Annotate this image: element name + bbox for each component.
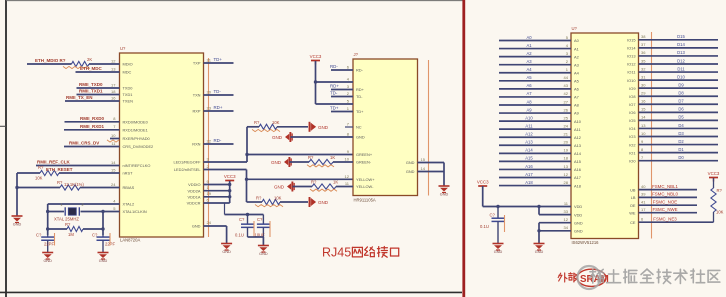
wire A4 (499, 72, 571, 74)
svg-text:RXN: RXN (192, 142, 200, 147)
ground (221, 244, 232, 255)
wire vertical orange line beside J1 (428, 60, 430, 196)
svg-text:CE: CE (630, 220, 636, 225)
wire ETH_RESET net (17, 172, 40, 174)
svg-text:FSMC_NBL0: FSMC_NBL0 (652, 192, 678, 197)
svg-text:15: 15 (641, 107, 646, 112)
svg-text:GND: GND (356, 135, 365, 140)
wire FSMC_NBL0 (639, 196, 698, 198)
wire VDD rail (204, 196, 230, 198)
wire XTAL1 (103, 211, 120, 213)
svg-text:RBIAS: RBIAS (123, 185, 135, 190)
svg-text:RXD0/MODE0: RXD0/MODE0 (123, 120, 149, 125)
svg-text:D4: D4 (678, 123, 684, 128)
svg-text:TD-: TD- (330, 91, 338, 96)
svg-text:RJ45: RJ45 (322, 246, 351, 260)
ground (439, 186, 450, 197)
svg-text:YELLOW-: YELLOW- (356, 184, 374, 189)
wire crystal right vertical (102, 212, 104, 236)
wire D5 (639, 119, 719, 121)
wire A8 (499, 104, 571, 106)
svg-text:TXN: TXN (193, 93, 201, 98)
wire RMII_CRS_DV (64, 146, 120, 148)
svg-text:31: 31 (641, 74, 646, 79)
svg-text:17: 17 (641, 207, 646, 212)
svg-text:D13: D13 (677, 50, 685, 55)
ground (98, 253, 109, 264)
svg-text:1K: 1K (330, 155, 335, 160)
wire A16 (499, 168, 571, 170)
resistor R8 1M (48, 228, 67, 230)
svg-text:1: 1 (60, 203, 62, 207)
svg-text:20: 20 (207, 89, 212, 94)
svg-text:NC: NC (356, 125, 362, 130)
svg-text:D0: D0 (678, 155, 684, 160)
wire FSMC_NOE (639, 204, 698, 206)
svg-text:A18: A18 (525, 180, 533, 185)
svg-text:TD-: TD- (214, 89, 222, 94)
svg-text:GND: GND (43, 259, 52, 263)
wire D0 (639, 160, 719, 162)
svg-text:RXD1/MODE1: RXD1/MODE1 (123, 128, 148, 133)
svg-text:34: 34 (564, 225, 569, 230)
svg-text:A11: A11 (574, 127, 581, 132)
svg-text:GND: GND (318, 125, 329, 130)
svg-text:A18: A18 (574, 183, 581, 188)
svg-text:12: 12 (564, 217, 569, 222)
wire A2 (499, 56, 571, 58)
svg-text:A7: A7 (526, 91, 532, 96)
svg-text:A8: A8 (526, 99, 532, 104)
svg-text:10K: 10K (35, 176, 43, 181)
svg-text:TD+: TD+ (214, 57, 223, 62)
svg-text:VDD1A: VDD1A (188, 195, 201, 200)
wire RXER stub (110, 138, 120, 140)
wire A10 (499, 120, 571, 122)
svg-text:A4: A4 (526, 67, 532, 72)
svg-text:A14: A14 (574, 151, 582, 156)
svg-text:ETH_MDIO R?: ETH_MDIO R? (35, 58, 66, 63)
svg-text:A5: A5 (574, 79, 579, 84)
svg-text:28: 28 (564, 180, 569, 185)
wire ETH_MDC net (76, 71, 120, 73)
power port GND (309, 197, 311, 207)
wire ETH_MDIO net (27, 63, 72, 65)
svg-text:IO8: IO8 (629, 94, 635, 99)
svg-text:IO6: IO6 (629, 110, 635, 115)
svg-text:RMII_TXD0: RMII_TXD0 (79, 82, 103, 87)
svg-text:42: 42 (564, 91, 569, 96)
wire caps to ground (248, 236, 264, 238)
svg-text:RXER/PHYAD0: RXER/PHYAD0 (123, 136, 151, 141)
svg-text:GND: GND (440, 193, 449, 197)
wire D14 (639, 47, 719, 49)
svg-text:VDD: VDD (574, 212, 582, 217)
svg-text:D11: D11 (677, 66, 685, 71)
svg-text:VDD2A: VDD2A (188, 188, 201, 193)
svg-text:14: 14 (421, 166, 426, 171)
svg-text:A13: A13 (574, 143, 581, 148)
wire D2 (639, 144, 719, 146)
wire RMII_RXD0 (65, 121, 120, 123)
J1 pin 7 NC stub (345, 126, 353, 128)
svg-text:XTAL1/CLKIN: XTAL1/CLKIN (123, 209, 147, 214)
svg-text:13: 13 (111, 66, 116, 71)
svg-text:22: 22 (207, 138, 212, 143)
svg-text:10: 10 (345, 157, 350, 162)
wire vertical orange line beside U1 (208, 58, 210, 237)
wire VDD rail (204, 202, 230, 204)
svg-text:LED1/REGOFF: LED1/REGOFF (173, 160, 201, 165)
svg-text:GND: GND (406, 169, 415, 174)
svg-text:19: 19 (564, 148, 569, 153)
svg-text:GND: GND (259, 252, 268, 256)
wire RMII_RXD1 (64, 129, 120, 131)
svg-text:GND: GND (271, 160, 282, 165)
resistor R7 2K (72, 61, 90, 66)
ground (493, 244, 504, 255)
wire RMII_TX_EN (65, 100, 120, 102)
svg-text:36: 36 (641, 50, 646, 55)
svg-text:nRST: nRST (123, 171, 134, 176)
svg-text:A9: A9 (574, 111, 579, 116)
svg-text:14: 14 (641, 115, 646, 120)
svg-text:IO10: IO10 (627, 78, 636, 83)
svg-text:43: 43 (564, 83, 569, 88)
svg-text:LED2/nINTSEL: LED2/nINTSEL (174, 167, 201, 172)
svg-text:32: 32 (641, 66, 646, 71)
svg-text:15: 15 (421, 157, 426, 162)
svg-text:TXEN: TXEN (123, 99, 134, 104)
svg-text:FSMC_NBL1: FSMC_NBL1 (652, 184, 678, 189)
svg-text:GREEN+: GREEN+ (356, 152, 373, 157)
wire A17 (499, 177, 571, 179)
wire A15 (499, 160, 571, 162)
resistor R6 12.1K 1% (17, 187, 60, 189)
svg-text:LB: LB (631, 195, 636, 200)
svg-text:35: 35 (641, 58, 646, 63)
svg-text:39: 39 (641, 192, 646, 197)
svg-text:10K: 10K (272, 120, 280, 125)
svg-text:TXD1: TXD1 (123, 92, 133, 97)
svg-text:10: 10 (641, 131, 646, 136)
svg-text:D6: D6 (678, 107, 684, 112)
wire A3 (499, 64, 571, 66)
svg-text:FSMC_NOE: FSMC_NOE (653, 200, 677, 205)
svg-text:RMII_TXD1: RMII_TXD1 (79, 89, 103, 94)
svg-text:A1: A1 (526, 43, 532, 48)
svg-text:33: 33 (564, 209, 569, 214)
svg-text:22PF: 22PF (44, 242, 54, 247)
svg-text:A16: A16 (525, 164, 533, 169)
resistor R5 10K (40, 170, 59, 175)
svg-text:D8: D8 (678, 91, 684, 96)
svg-text:CRS_DV/MODE2: CRS_DV/MODE2 (123, 144, 154, 149)
wire A18 (499, 185, 571, 187)
svg-text:29: 29 (641, 91, 646, 96)
wire D7 (639, 103, 719, 105)
svg-text:A5: A5 (526, 75, 532, 80)
svg-text:37: 37 (641, 42, 646, 47)
svg-text:A2: A2 (526, 51, 532, 56)
svg-text:IO4: IO4 (629, 126, 636, 131)
svg-text:IO13: IO13 (627, 54, 635, 59)
svg-text:A0: A0 (574, 38, 580, 43)
svg-text:J?: J? (354, 52, 359, 57)
svg-text:15: 15 (111, 167, 116, 172)
memory U2 SRAM IS62WV51216 body (571, 33, 639, 239)
svg-text:XTAL2: XTAL2 (123, 202, 135, 207)
svg-text:R?: R? (256, 195, 262, 200)
svg-text:A10: A10 (574, 119, 582, 124)
svg-text:A8: A8 (574, 103, 579, 108)
svg-text:TD+: TD+ (356, 109, 364, 114)
crystal X1 25MHz (48, 211, 64, 213)
svg-text:RMII_RXD1: RMII_RXD1 (80, 124, 105, 129)
svg-text:24: 24 (207, 220, 212, 225)
svg-text:A14: A14 (525, 148, 533, 153)
capacitor C10 0.1uF (247, 215, 249, 225)
svg-text:14: 14 (111, 160, 116, 165)
svg-text:26: 26 (564, 107, 569, 112)
svg-text:RD+: RD+ (214, 105, 223, 110)
wire A12 (499, 136, 571, 138)
svg-text:GREEN-: GREEN- (356, 160, 372, 165)
svg-text:GND: GND (274, 185, 285, 190)
svg-text:13: 13 (641, 123, 646, 128)
svg-text:TXP: TXP (193, 61, 201, 66)
ground (42, 253, 53, 264)
svg-text:A10: A10 (525, 115, 533, 120)
svg-text:RD+: RD+ (356, 87, 365, 92)
svg-text:0.1U: 0.1U (235, 233, 244, 238)
svg-text:nINT/REFCLKO: nINT/REFCLKO (123, 163, 151, 168)
svg-text:2K: 2K (87, 57, 92, 62)
wire D9 (639, 87, 719, 89)
svg-text:D10: D10 (677, 74, 685, 79)
capacitor C11 10uF (262, 215, 264, 225)
svg-text:D9: D9 (678, 82, 684, 87)
svg-text:RD-: RD- (356, 68, 364, 73)
svg-text:GND: GND (99, 259, 108, 263)
svg-text:RD-: RD- (214, 138, 222, 143)
wire GND pins (539, 222, 571, 224)
svg-text:IO12: IO12 (627, 62, 635, 67)
wire pin4 (316, 81, 354, 83)
svg-text:XTAL 25MHZ: XTAL 25MHZ (54, 217, 79, 222)
wire D11 (639, 71, 719, 73)
svg-text:18: 18 (564, 156, 569, 161)
svg-text:C?: C? (257, 217, 263, 222)
svg-text:10K: 10K (274, 195, 282, 200)
svg-text:TD+: TD+ (330, 106, 339, 111)
power port GND (309, 122, 311, 132)
wire D15 (639, 39, 719, 41)
svg-text:IO3: IO3 (629, 134, 635, 139)
svg-text:VCC3: VCC3 (310, 54, 322, 59)
svg-text:R?: R? (65, 222, 71, 227)
svg-text:GND: GND (574, 220, 583, 225)
wire VDD rail (204, 184, 230, 186)
svg-text:R?: R? (254, 120, 260, 125)
svg-text:A17: A17 (574, 175, 581, 180)
svg-text:ETH_MDC: ETH_MDC (80, 66, 103, 71)
wire D8 (639, 95, 719, 97)
svg-text:A2: A2 (574, 54, 579, 59)
wire A5 (499, 80, 571, 82)
svg-text:16: 16 (111, 95, 116, 100)
svg-text:12: 12 (564, 172, 569, 177)
svg-text:TD-: TD- (356, 94, 363, 99)
wire A7 (499, 96, 571, 98)
svg-text:A1: A1 (574, 46, 579, 51)
svg-text:1M: 1M (68, 232, 74, 237)
resistor R11 10K pullup yellow (262, 199, 280, 204)
svg-text:D1: D1 (678, 147, 684, 152)
svg-text:ETH_RESET: ETH_RESET (46, 167, 73, 172)
svg-text:GND: GND (406, 160, 415, 165)
svg-text:RXP: RXP (193, 109, 201, 114)
wire A14 (499, 152, 571, 154)
wire vertical orange line inside U2 right (651, 32, 653, 239)
wire LED1 to GREEN+ (204, 161, 248, 163)
svg-text:OE: OE (630, 203, 636, 208)
svg-text:RMII_REF_CLK: RMII_REF_CLK (37, 160, 71, 165)
wire VDD pin33 (539, 214, 571, 216)
wire A6 (499, 88, 571, 90)
svg-text:20: 20 (564, 140, 569, 145)
wire D6 (639, 111, 719, 113)
svg-text:IO15: IO15 (627, 38, 635, 43)
svg-text:A0: A0 (526, 35, 532, 40)
svg-text:MDIO: MDIO (123, 62, 133, 67)
capacitor C9 22pF (102, 235, 104, 237)
node RBIAS junction (15, 186, 18, 189)
svg-text:UB: UB (630, 187, 636, 192)
svg-text:12: 12 (345, 174, 350, 179)
svg-text:HR911105A: HR911105A (354, 198, 376, 203)
svg-text:U?: U? (120, 46, 126, 51)
svg-text:R?: R? (311, 180, 317, 185)
svg-text:VCC3: VCC3 (708, 171, 720, 176)
wire D10 (639, 79, 719, 81)
svg-text:GND: GND (574, 229, 583, 234)
svg-text:GND: GND (272, 135, 283, 140)
svg-text:24: 24 (564, 123, 569, 128)
sheet border left section (5, 0, 7, 297)
svg-text:RD+: RD+ (330, 84, 339, 89)
svg-text:27: 27 (564, 99, 569, 104)
red section divider (462, 0, 465, 297)
ground (258, 246, 269, 257)
wire decoupling rail (224, 203, 226, 215)
wire D13 (639, 55, 719, 57)
svg-text:VCC3: VCC3 (477, 180, 489, 185)
svg-text:A15: A15 (525, 156, 533, 161)
watermark juejin (578, 266, 720, 289)
wire D4 (639, 127, 719, 129)
svg-text:RMII_TX_EN: RMII_TX_EN (66, 95, 93, 100)
svg-text:GND: GND (318, 200, 329, 205)
svg-text:A17: A17 (525, 172, 533, 177)
svg-text:D3: D3 (678, 131, 684, 136)
svg-text:FSMC_NE3: FSMC_NE3 (653, 217, 677, 222)
svg-text:MDC: MDC (123, 70, 132, 75)
svg-text:GND: GND (192, 224, 201, 229)
svg-text:A12: A12 (525, 132, 533, 137)
svg-text:A13: A13 (525, 140, 533, 145)
capacitor C12 0.1uF (497, 207, 499, 219)
wire A9 (499, 112, 571, 114)
svg-text:44: 44 (564, 75, 569, 80)
svg-text:WE: WE (629, 210, 636, 215)
wire D3 (639, 136, 719, 138)
svg-text:18: 18 (111, 89, 116, 94)
svg-text:17: 17 (111, 82, 116, 87)
svg-text:30: 30 (641, 82, 646, 87)
wire VDD rail (204, 190, 230, 192)
wire A0 (499, 40, 571, 42)
svg-text:10K: 10K (716, 210, 724, 215)
svg-text:12.1K(1%): 12.1K(1%) (64, 182, 84, 187)
wire pin5 (316, 103, 354, 105)
wire to GND (16, 173, 18, 216)
svg-text:2: 2 (82, 203, 84, 207)
svg-text:0.1U: 0.1U (480, 224, 489, 229)
svg-text:A15: A15 (574, 159, 581, 164)
svg-text:D2: D2 (678, 139, 684, 144)
svg-text:13: 13 (564, 164, 569, 169)
svg-text:GND: GND (13, 223, 22, 227)
svg-text:A7: A7 (574, 95, 579, 100)
svg-text:TXD0: TXD0 (123, 86, 134, 91)
wire RMII_TXD1 (77, 94, 120, 96)
svg-text:VDDCR: VDDCR (187, 201, 201, 206)
svg-text:IO0: IO0 (629, 158, 636, 163)
svg-text:25: 25 (564, 115, 569, 120)
svg-text:IS62WV51216: IS62WV51216 (572, 240, 600, 245)
svg-text:VDDIO: VDDIO (188, 182, 200, 187)
svg-text:GND: GND (494, 250, 503, 254)
svg-text:IO14: IO14 (627, 46, 636, 51)
svg-text:38: 38 (641, 34, 646, 39)
svg-text:A6: A6 (574, 87, 579, 92)
svg-text:10: 10 (111, 133, 116, 138)
svg-text:VDD: VDD (574, 204, 582, 209)
svg-text:A3: A3 (526, 59, 532, 64)
wire RMII_REF_CLK (36, 165, 120, 167)
svg-text:24: 24 (111, 182, 116, 187)
svg-text:21: 21 (564, 132, 569, 137)
wire A1 (499, 48, 571, 50)
svg-text:A3: A3 (574, 62, 579, 67)
svg-text:A6: A6 (526, 83, 532, 88)
wire D12 (639, 63, 719, 65)
svg-text:RMII_RXD0: RMII_RXD0 (80, 116, 105, 121)
svg-text:YELLOW+: YELLOW+ (356, 177, 375, 182)
svg-text:C?: C? (490, 213, 496, 218)
svg-text:23: 23 (207, 105, 212, 110)
svg-text:R?: R? (38, 165, 44, 170)
svg-text:A12: A12 (574, 135, 581, 140)
ground (12, 216, 23, 227)
svg-text:19: 19 (207, 191, 212, 196)
wire FSMC_NWE (639, 212, 698, 214)
svg-text:IO9: IO9 (629, 86, 635, 91)
svg-text:U?: U? (572, 26, 578, 31)
svg-text:IO2: IO2 (629, 142, 635, 147)
svg-text:IO7: IO7 (629, 102, 635, 107)
